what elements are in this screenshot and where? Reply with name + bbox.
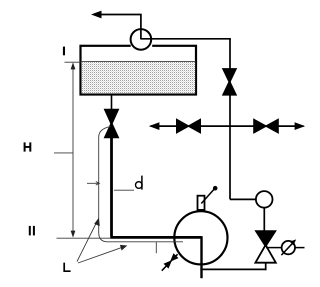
pump P1 (circle): [131, 29, 152, 50]
wire: bottom return pipe: [200, 268, 266, 270]
nozzle on evaporator: [198, 196, 205, 210]
gap in vessel top edge under pump: [131, 44, 153, 49]
tick on L bracket: [155, 242, 157, 253]
dimension line H: [72, 64, 74, 237]
lever with knob: [201, 189, 214, 204]
evaporator E1 (circle): [174, 211, 227, 264]
level II line: [57, 237, 112, 239]
label L: [64, 263, 70, 272]
wire: branch to instrument: [230, 198, 256, 200]
L leader 1: [77, 221, 98, 262]
wire: valve to orifice: [266, 247, 282, 249]
control valve V5: [254, 230, 277, 248]
valve V4 on header (right): [253, 118, 267, 134]
wire: instrument to control valve: [263, 208, 265, 231]
valve V2 on right pipe: [222, 68, 237, 84]
valve V3 on header (left): [176, 118, 190, 134]
wire: pump discharge to right pipe: [141, 38, 231, 40]
H leader tick: [54, 152, 73, 154]
wire: vapor outlet arrow: [94, 15, 141, 30]
liquid hatch in vessel: [82, 62, 195, 94]
label H: [24, 142, 32, 151]
wire: right vertical pipe: [229, 39, 231, 200]
wire: L bracket thin line: [99, 127, 183, 242]
feed inlet crossed arrows: [162, 254, 178, 271]
label II: [29, 226, 35, 236]
d leader: [114, 189, 134, 191]
wire: pump inlet into center: [140, 29, 142, 39]
tick at level I: [65, 61, 81, 63]
vessel D1 (flash drum): [81, 46, 197, 95]
valve V1 under vessel: [104, 109, 120, 126]
wire: thick downcomer pipe d: [110, 137, 113, 237]
d tick on bracket line: [87, 182, 99, 186]
L leader 2: [78, 247, 124, 263]
wire: vessel drain stub: [111, 95, 113, 111]
wire: orifice outlet: [295, 247, 305, 249]
wire: steam header with arrows: [151, 125, 304, 127]
label I: [63, 47, 65, 56]
instrument FI (circle): [256, 191, 273, 208]
wire: control valve bottom stub: [265, 263, 267, 271]
wire: evaporator internal/bottom outlet: [200, 236, 202, 278]
orifice symbol (circle with arrow slash): [282, 241, 295, 254]
label d: [136, 182, 143, 189]
